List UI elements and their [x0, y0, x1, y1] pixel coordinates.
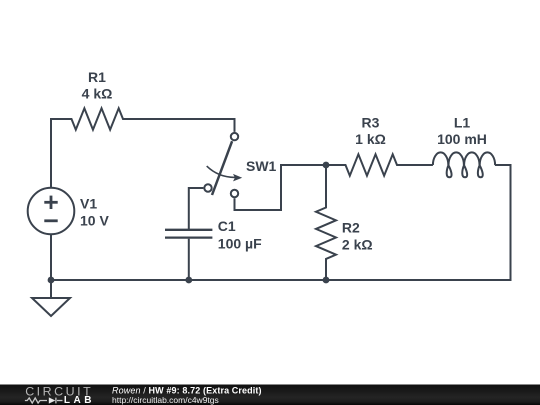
svg-text:L1: L1: [454, 114, 471, 130]
svg-text:1 kΩ: 1 kΩ: [355, 131, 386, 147]
svg-text:10 V: 10 V: [80, 212, 109, 228]
svg-text:SW1: SW1: [246, 158, 277, 174]
svg-text:Rowen / HW #9: 8.72 (Extra Cre: Rowen / HW #9: 8.72 (Extra Credit): [112, 385, 262, 395]
svg-text:R3: R3: [362, 114, 380, 130]
svg-text:100 mH: 100 mH: [437, 131, 487, 147]
svg-text:http://circuitlab.com/c4w9tgs: http://circuitlab.com/c4w9tgs: [112, 395, 219, 405]
svg-text:2 kΩ: 2 kΩ: [342, 237, 373, 253]
svg-text:R1: R1: [88, 69, 106, 85]
svg-text:C1: C1: [218, 218, 236, 234]
svg-text:100 µF: 100 µF: [218, 236, 262, 252]
svg-text:LAB: LAB: [64, 395, 95, 405]
svg-text:V1: V1: [80, 195, 97, 211]
svg-text:4 kΩ: 4 kΩ: [82, 86, 113, 102]
svg-text:R2: R2: [342, 220, 360, 236]
